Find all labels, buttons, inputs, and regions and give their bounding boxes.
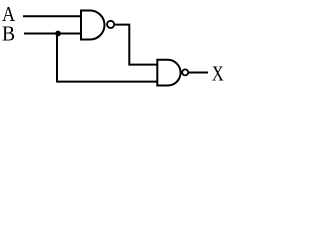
NAND gate U2 <box>157 60 188 86</box>
junction dot on B <box>55 31 61 37</box>
wire B input <box>24 33 82 35</box>
wire U2 output <box>189 72 208 74</box>
wire B branch to U2 <box>57 34 157 82</box>
NAND gate U1 <box>81 11 114 40</box>
svg-text:B: B <box>2 22 15 46</box>
svg-text:X: X <box>212 61 224 85</box>
wire A input <box>23 15 82 17</box>
wire U1 output to U2 top input <box>115 25 157 65</box>
